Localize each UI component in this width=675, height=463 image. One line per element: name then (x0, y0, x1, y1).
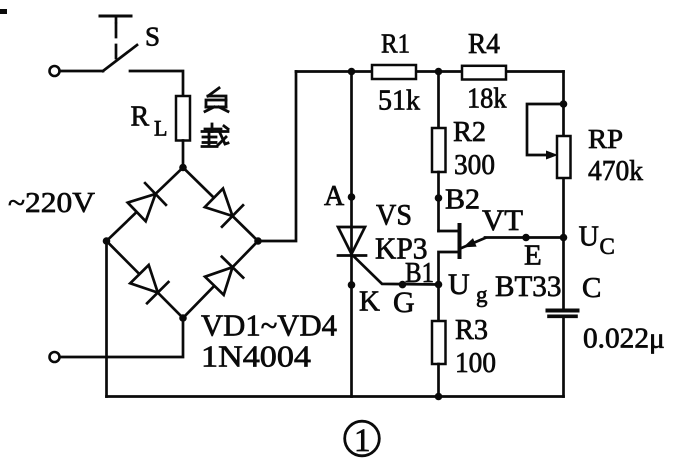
resistor RL (176, 96, 190, 141)
svg-text:RP: RP (588, 124, 623, 154)
resistor R4 (462, 66, 506, 80)
node bottom rail junction (435, 393, 443, 401)
UJT VT emitter (462, 238, 486, 248)
diode VD2 (top-right arm) (205, 189, 243, 227)
label 载 (load char 2) (202, 124, 228, 147)
node bridge right (254, 237, 262, 245)
resistor R1 (372, 65, 416, 79)
svg-text:L: L (154, 116, 167, 141)
node top rail / VS branch (348, 68, 356, 76)
gate wire of VS (354, 257, 439, 285)
scan artifact tick top-left (0, 9, 7, 14)
wire switch to RL corner (130, 71, 183, 96)
svg-text:0.022μ: 0.022μ (583, 324, 665, 355)
wire VS branch from top rail (350, 72, 353, 256)
emitter wire to right rail (485, 236, 564, 239)
svg-text:51k: 51k (378, 84, 420, 116)
bridge arm wire L-T (107, 168, 184, 242)
terminal AC1 (50, 66, 60, 76)
node top rail / R2 branch (435, 68, 443, 76)
wire R3 to bottom rail (437, 364, 440, 397)
bottom rail (107, 395, 564, 398)
svg-text:~220V: ~220V (8, 187, 95, 219)
wire Ug to R3 (437, 285, 440, 322)
wire bridge left to bottom rail (105, 241, 108, 397)
diode VD4 (bottom-right arm) (205, 257, 243, 295)
capacitor C top plate (548, 309, 578, 313)
diode VD1 (top-left arm) (128, 183, 166, 221)
top rail (296, 70, 564, 73)
wire AC2 to bridge bottom (60, 318, 183, 357)
svg-text:R1: R1 (381, 29, 410, 59)
svg-text:K: K (359, 286, 380, 318)
bridge arm wire T-R (183, 168, 258, 242)
bridge arm wire L-B (107, 241, 184, 318)
svg-text:G: G (393, 286, 415, 319)
label Ug (448, 268, 488, 307)
RP wiper bypass wire (527, 104, 564, 155)
svg-text:1: 1 (354, 423, 371, 459)
svg-text:VD1~VD4: VD1~VD4 (201, 308, 337, 343)
UJT VT emitter arrowhead (463, 238, 477, 247)
node B2 (435, 194, 443, 202)
node K (348, 281, 356, 289)
svg-text:100: 100 (455, 347, 496, 379)
svg-text:R2: R2 (453, 116, 486, 148)
resistor R3 (432, 321, 446, 364)
label 负 (load char 1) (205, 88, 228, 112)
right rail upper (top rail to cap) (562, 72, 565, 309)
node UC junction (560, 234, 568, 242)
wire AC1 to switch (60, 70, 103, 73)
UJT VT base-two lead (439, 230, 460, 233)
svg-text:VT: VT (482, 204, 523, 237)
terminal AC2 (50, 352, 60, 362)
svg-text:R3: R3 (455, 314, 488, 346)
node bridge top (179, 164, 187, 172)
svg-text:U: U (579, 222, 599, 253)
node bridge bottom (179, 314, 187, 322)
node Ug (435, 281, 443, 289)
svg-text:A: A (324, 181, 345, 212)
svg-text:g: g (476, 282, 488, 307)
svg-text:300: 300 (454, 149, 495, 181)
node A (348, 193, 356, 201)
figure number circle 1 (345, 421, 380, 456)
node E (522, 234, 530, 242)
thyristor VS triangle (338, 227, 365, 254)
svg-text:U: U (448, 268, 470, 301)
svg-text:E: E (524, 240, 542, 272)
wire R2 branch from top rail (437, 72, 440, 129)
thyristor VS cathode bar (338, 254, 366, 257)
UJT VT base-one lead (439, 252, 460, 285)
diode VD3 (bottom-left arm) (130, 265, 168, 303)
UJT VT base bar (458, 225, 462, 257)
svg-text:R4: R4 (468, 29, 500, 60)
potentiometer RP (557, 136, 571, 178)
wire RL to bridge top (182, 141, 185, 168)
svg-text:470k: 470k (588, 155, 643, 187)
capacitor C bottom plate (549, 314, 576, 318)
switch S arm (103, 45, 137, 71)
svg-text:BT33: BT33 (495, 270, 562, 303)
label UC (579, 222, 615, 259)
svg-text:B1: B1 (405, 258, 434, 289)
wire R2 to B2 lead (437, 172, 440, 231)
svg-text:B2: B2 (445, 185, 480, 216)
svg-text:18k: 18k (467, 83, 507, 115)
right rail lower (cap to bottom rail) (562, 318, 565, 397)
resistor R2 (432, 128, 446, 172)
node bridge left (103, 237, 111, 245)
label RL (131, 102, 168, 141)
svg-text:C: C (600, 234, 615, 259)
RP wiper arrowhead (546, 151, 558, 160)
svg-text:C: C (582, 272, 601, 304)
svg-text:R: R (131, 102, 150, 133)
bridge arm wire B-R (183, 241, 258, 318)
node RP bypass junction (560, 100, 568, 108)
svg-text:1N4004: 1N4004 (201, 339, 312, 374)
svg-text:VS: VS (376, 199, 412, 232)
switch S actuator T-bar (100, 16, 131, 61)
svg-text:S: S (145, 22, 160, 52)
node G (399, 281, 407, 289)
wire VS cathode to bottom rail (350, 256, 353, 397)
wire bridge right to left riser (258, 72, 296, 242)
